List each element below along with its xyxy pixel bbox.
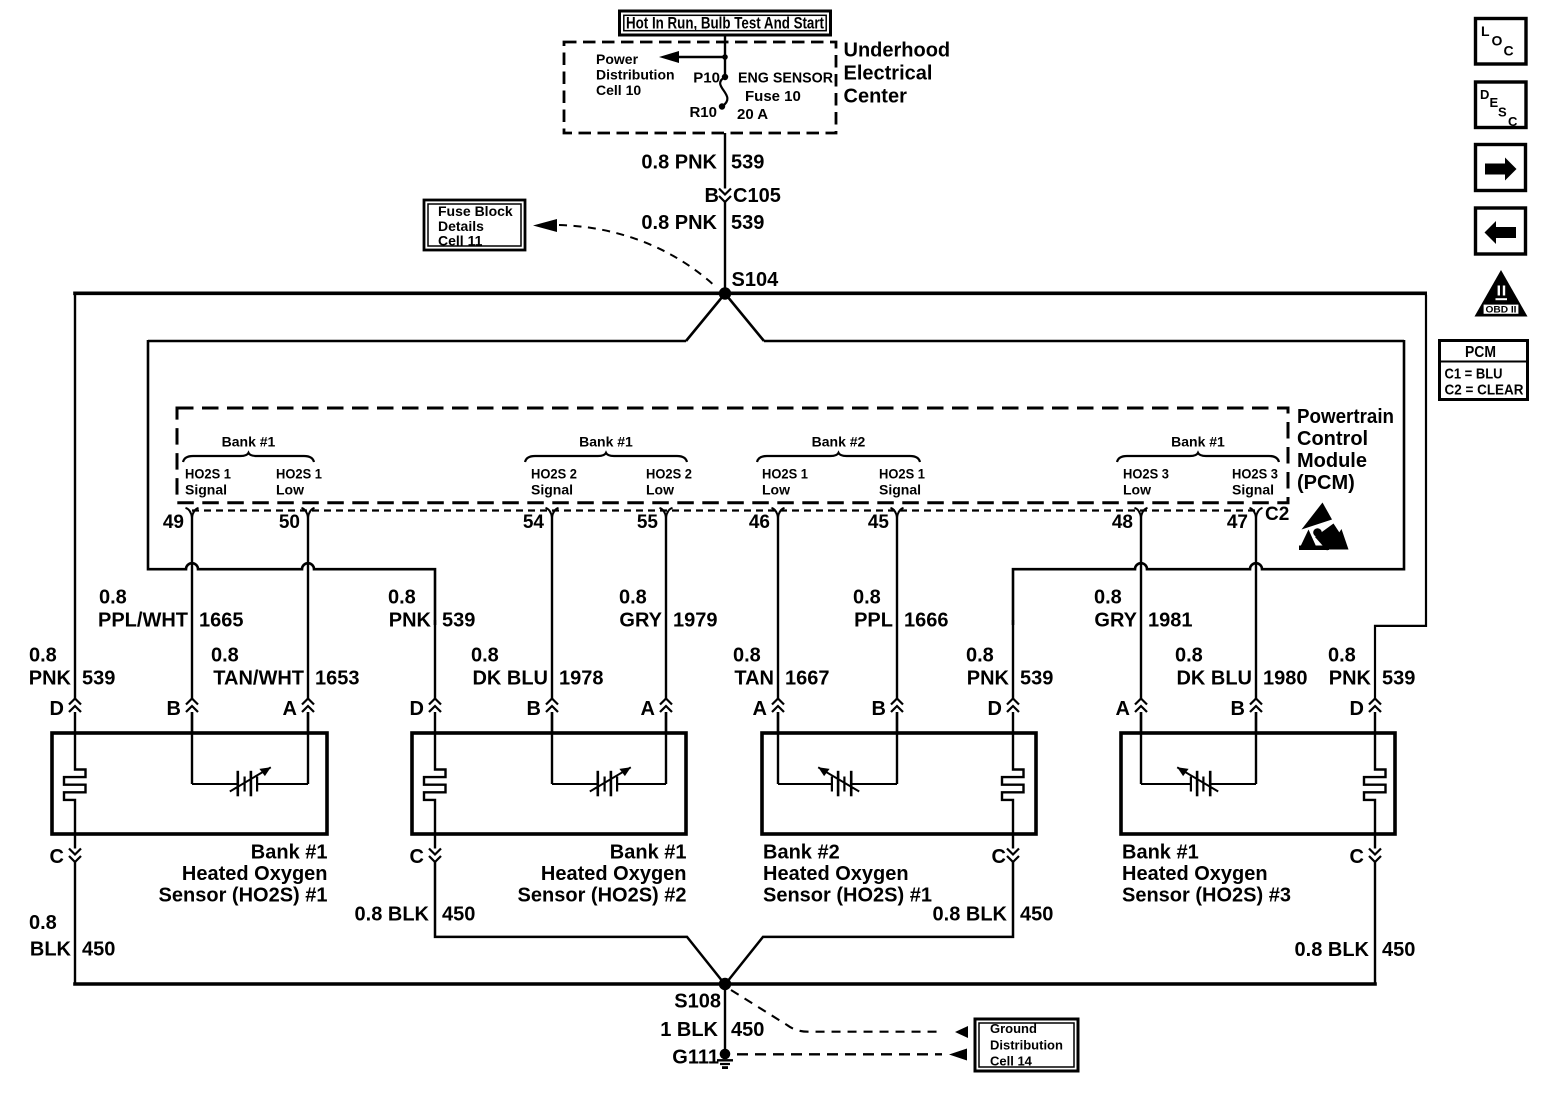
sensor connector pin A: [1116, 698, 1147, 732]
svg-text:TAN/WHT: TAN/WHT: [213, 668, 304, 690]
svg-text:Powertrain: Powertrain: [1297, 406, 1394, 428]
svg-text:1978: 1978: [559, 668, 604, 690]
wire 0.8 BLK 450 HO2S2 to splice S108: [435, 862, 723, 982]
svg-text:HO2S 1: HO2S 1: [762, 466, 808, 482]
wire label 0.8 BLK 450 (HO2S3): [1295, 939, 1416, 961]
Powertrain Control Module (PCM) dashed box: [177, 408, 1288, 503]
svg-text:539: 539: [442, 610, 475, 632]
sensor pin C HO2S1: [50, 836, 81, 868]
wire label 0.8 PNK 539 (Bank2 HO2S1 D): [966, 645, 1053, 690]
svg-text:C: C: [50, 846, 64, 868]
svg-text:P10: P10: [693, 70, 720, 87]
wire label 0.8 PNK 539 (HO2S2 D): [388, 587, 475, 632]
PNK 539 branch diagonals from S104: [686, 294, 764, 342]
svg-text:BLK: BLK: [30, 939, 72, 961]
svg-text:Heated Oxygen: Heated Oxygen: [763, 863, 909, 885]
wire PNK 539 drop to HO2S2 pin D: [434, 620, 436, 699]
HO2S Bank1 #2 sensor box: [412, 733, 686, 834]
svg-text:0.8 BLK: 0.8 BLK: [355, 904, 430, 926]
svg-text:450: 450: [1020, 904, 1053, 926]
PCM pin 47 terminal and wire: [1227, 508, 1263, 699]
sensor connector pin D: [988, 698, 1019, 732]
svg-text:50: 50: [279, 512, 300, 533]
svg-text:Fuse Block: Fuse Block: [438, 203, 513, 219]
splice S104: [719, 269, 779, 300]
PCM pin 48 terminal and wire: [1112, 508, 1148, 699]
HO2S Bank2 #1 sensor box: [762, 733, 1036, 834]
sensor pin C Bank2 HO2S1: [992, 836, 1019, 868]
svg-text:C: C: [410, 846, 424, 868]
reference box: Fuse Block Details Cell 11: [424, 200, 525, 250]
svg-text:Low: Low: [276, 482, 304, 498]
svg-text:45: 45: [868, 512, 890, 533]
sensing element HO2S3 with wires: [1141, 712, 1256, 796]
label Bank #1 Heated Oxygen Sensor (HO2S) #3: [1122, 842, 1291, 907]
svg-text:Bank #1: Bank #1: [1122, 842, 1199, 864]
label Bank #1 Heated Oxygen Sensor (HO2S) #2: [518, 842, 687, 907]
svg-text:1665: 1665: [199, 610, 244, 632]
wire label 0.8 PNK 539 (below C105): [641, 212, 764, 234]
wire label 0.8 PPL/WHT 1665: [98, 587, 244, 632]
wire from feed box into UEC to fuse P10: [724, 35, 726, 75]
svg-text:0.8: 0.8: [619, 587, 647, 609]
svg-text:539: 539: [731, 212, 764, 234]
svg-text:0.8: 0.8: [29, 912, 57, 934]
wire PNK 539 drop to Bank2 HO2S1 pin D: [1012, 620, 1014, 699]
sensor connector pin A: [641, 698, 672, 732]
svg-text:48: 48: [1112, 512, 1133, 533]
PCM pin function label HO2S 1 Signal: [879, 466, 925, 498]
svg-text:1979: 1979: [673, 610, 718, 632]
svg-text:Power: Power: [596, 51, 639, 67]
svg-text:539: 539: [1382, 668, 1415, 690]
svg-text:B: B: [705, 185, 719, 207]
Underhood Electrical Center dashed box: [564, 42, 836, 133]
svg-text:R10: R10: [689, 104, 717, 121]
svg-text:Low: Low: [762, 482, 790, 498]
svg-text:A: A: [1116, 698, 1130, 720]
svg-text:Fuse 10: Fuse 10: [745, 88, 801, 105]
sensor connector pin B: [167, 698, 198, 732]
svg-text:Underhood: Underhood: [844, 40, 951, 62]
wire label 0.8 TAN/WHT 1653: [211, 645, 360, 690]
svg-text:0.8: 0.8: [1175, 645, 1203, 667]
PCM pin function label HO2S 3 Signal: [1232, 466, 1278, 498]
svg-text:0.8: 0.8: [388, 587, 416, 609]
wire label 0.8 PPL 1666: [853, 587, 949, 632]
svg-text:Low: Low: [646, 482, 674, 498]
svg-text:A: A: [283, 698, 297, 720]
svg-text:Distribution: Distribution: [990, 1038, 1063, 1053]
svg-text:PNK: PNK: [29, 668, 72, 690]
svg-text:D: D: [1480, 87, 1489, 102]
PCM pin function label HO2S 2 Low: [646, 466, 692, 498]
label Underhood Electrical Center: [844, 40, 951, 108]
svg-text:1653: 1653: [315, 668, 360, 690]
PNK 539 bus right edge: [1403, 340, 1406, 571]
svg-text:Module: Module: [1297, 450, 1367, 472]
svg-text:TAN: TAN: [734, 668, 774, 690]
svg-text:C2 = CLEAR: C2 = CLEAR: [1445, 382, 1524, 399]
svg-text:55: 55: [637, 512, 659, 533]
PCM pin function label HO2S 1 Low: [762, 466, 808, 498]
svg-text:0.8: 0.8: [471, 645, 499, 667]
svg-text:DK BLU: DK BLU: [472, 668, 548, 690]
label Power Distribution Cell 10: [596, 51, 675, 98]
svg-text:49: 49: [163, 512, 184, 533]
power feed box: Hot In Run, Bulb Test And Start: [620, 11, 831, 35]
svg-text:A: A: [641, 698, 655, 720]
label Powertrain Control Module (PCM): [1297, 406, 1394, 494]
dashed reference arrow G111 to Ground Distribution: [737, 1049, 967, 1061]
wire label 0.8 TAN 1667: [733, 645, 830, 690]
sensing element Bank2 HO2S1 with wires: [778, 712, 897, 796]
svg-text:HO2S 1: HO2S 1: [276, 466, 322, 482]
svg-text:Bank #2: Bank #2: [763, 842, 840, 864]
svg-text:OBD II: OBD II: [1486, 305, 1517, 316]
arrow to Power Distribution Cell 10: [659, 51, 728, 63]
svg-text:Sensor (HO2S) #1: Sensor (HO2S) #1: [159, 885, 328, 907]
wire label 0.8 PNK 539 (left, HO2S1 D): [29, 645, 116, 690]
sidebar icon arrow right: [1476, 145, 1526, 191]
svg-text:450: 450: [731, 1019, 764, 1041]
OBD II symbol: [1475, 270, 1528, 317]
svg-text:1666: 1666: [904, 610, 949, 632]
wire PNK 539 left drop to HO2S1 pin D: [74, 295, 76, 699]
svg-text:Hot In Run, Bulb Test And Star: Hot In Run, Bulb Test And Start: [626, 15, 824, 33]
PCM connector legend box: [1440, 341, 1528, 400]
svg-text:Bank #2: Bank #2: [812, 434, 866, 450]
svg-text:Electrical: Electrical: [844, 63, 933, 85]
sensor connector pin D: [1350, 698, 1381, 732]
svg-text:Distribution: Distribution: [596, 67, 675, 83]
svg-text:PNK: PNK: [1329, 668, 1372, 690]
wire label 0.8 PNK 539 (above C105): [641, 152, 764, 174]
wire label 0.8 BLK 450 (Bank2 HO2S1): [933, 904, 1054, 926]
label Bank #2 Heated Oxygen Sensor (HO2S) #1: [763, 842, 932, 907]
svg-text:C: C: [1508, 114, 1518, 129]
svg-text:0.8: 0.8: [1328, 645, 1356, 667]
svg-text:PPL: PPL: [854, 610, 893, 632]
svg-text:A: A: [753, 698, 767, 720]
svg-text:C: C: [992, 846, 1006, 868]
svg-text:1 BLK: 1 BLK: [660, 1019, 718, 1041]
svg-text:PCM: PCM: [1465, 344, 1496, 361]
sidebar icon LOC: [1476, 19, 1527, 65]
svg-text:D: D: [988, 698, 1002, 720]
wire 0.8 BLK 450 HO2S3 to ground bus: [1374, 862, 1376, 985]
svg-text:Heated Oxygen: Heated Oxygen: [541, 863, 687, 885]
svg-text:Signal: Signal: [1232, 482, 1274, 498]
svg-text:0.8: 0.8: [733, 645, 761, 667]
fuse value label ENG SENSOR Fuse 10 20 A: [737, 70, 833, 124]
svg-text:B: B: [872, 698, 886, 720]
sensor connector pin B: [872, 698, 903, 732]
bottom BLK 450 ground bus (thick): [73, 982, 1377, 986]
svg-text:1981: 1981: [1148, 610, 1193, 632]
svg-text:Low: Low: [1123, 482, 1151, 498]
svg-text:Signal: Signal: [531, 482, 573, 498]
dashed reference arrow S108 to Ground Distribution: [731, 990, 968, 1038]
sensor pin C HO2S2: [410, 836, 441, 868]
wire label 0.8 DK BLU 1980: [1175, 645, 1308, 690]
svg-text:0.8 PNK: 0.8 PNK: [641, 152, 717, 174]
svg-text:Signal: Signal: [879, 482, 921, 498]
PCM brace label Bank #1 over pins 525-687: [525, 434, 687, 463]
PNK 539 bus lower rail left with wire hops, drops to HO2S2 pin D: [148, 563, 435, 625]
svg-text:Cell 14: Cell 14: [990, 1054, 1033, 1069]
wire 0.8 PNK 539 from fuse to C105: [724, 133, 726, 189]
PNK 539 bus lower rail right with wire hops, drops to Bank2 HO2S1 pin D: [1013, 563, 1404, 625]
svg-text:0.8: 0.8: [29, 645, 57, 667]
PCM pin function label HO2S 3 Low: [1123, 466, 1169, 498]
wire PNK 539 right drop to HO2S3 pin D (with jog): [1375, 295, 1426, 699]
label Bank #1 Heated Oxygen Sensor (HO2S) #1: [159, 842, 328, 907]
svg-text:1980: 1980: [1263, 668, 1308, 690]
svg-text:PPL/WHT: PPL/WHT: [98, 610, 188, 632]
sensor connector pin B: [527, 698, 558, 732]
svg-text:L: L: [1481, 23, 1490, 39]
svg-text:539: 539: [1020, 668, 1053, 690]
svg-text:0.8: 0.8: [211, 645, 239, 667]
sensor connector pin D: [50, 698, 81, 732]
svg-text:Sensor (HO2S) #1: Sensor (HO2S) #1: [763, 885, 932, 907]
svg-text:PNK: PNK: [967, 668, 1010, 690]
wire label 0.8 PNK 539 (right, HO2S3 D): [1328, 645, 1415, 690]
ESD sensitive device symbol (hand in triangle): [1299, 503, 1349, 551]
svg-text:HO2S 1: HO2S 1: [879, 466, 925, 482]
PCM pin 45 terminal and wire: [868, 508, 904, 699]
PCM pin 50 terminal and wire: [279, 508, 315, 699]
svg-text:539: 539: [82, 668, 115, 690]
reference box: Ground Distribution Cell 14: [975, 1019, 1078, 1071]
svg-text:C: C: [1350, 846, 1364, 868]
svg-text:D: D: [1350, 698, 1364, 720]
svg-text:47: 47: [1227, 512, 1248, 533]
svg-text:HO2S 3: HO2S 3: [1123, 466, 1169, 482]
svg-text:C105: C105: [733, 185, 781, 207]
svg-text:46: 46: [749, 512, 770, 533]
svg-text:450: 450: [442, 904, 475, 926]
svg-text:C2: C2: [1265, 504, 1289, 525]
fuse F10 ENG SENSOR Fuse 10 20 A: [719, 74, 728, 110]
svg-text:HO2S 1: HO2S 1: [185, 466, 231, 482]
sensing element HO2S1 with wires: [192, 712, 308, 796]
sensor connector pin B: [1231, 698, 1262, 732]
wire label 0.8 GRY 1981: [1094, 587, 1193, 632]
svg-text:D: D: [50, 698, 64, 720]
svg-text:0.8: 0.8: [853, 587, 881, 609]
svg-text:1667: 1667: [785, 668, 830, 690]
svg-text:Center: Center: [844, 86, 908, 108]
wire 1 BLK 450 from S108 to G111: [724, 984, 726, 1049]
heater element HO2S3: [1364, 732, 1386, 837]
sensor pin C HO2S3: [1350, 836, 1381, 868]
svg-text:Bank #1: Bank #1: [610, 842, 687, 864]
HO2S Bank1 #1 sensor box: [52, 733, 327, 834]
sensor connector pin A: [753, 698, 784, 732]
PCM brace label Bank #1 over pins 1117-1279: [1117, 434, 1279, 463]
svg-text:0.8: 0.8: [1094, 587, 1122, 609]
wire label 0.8 BLK 450 (HO2S2): [355, 904, 476, 926]
svg-text:Signal: Signal: [185, 482, 227, 498]
svg-text:Bank #1: Bank #1: [222, 434, 276, 450]
wire 0.8 BLK 450 Bank2 HO2S1 to splice S108: [727, 862, 1013, 982]
wire label 1 BLK 450: [660, 1019, 764, 1041]
svg-text:B: B: [167, 698, 181, 720]
sensor connector pin A: [283, 698, 314, 732]
wire label 0.8 BLK 450 (HO2S1): [29, 912, 115, 961]
PCM pin 49 terminal and wire: [163, 508, 199, 699]
wire label 0.8 GRY 1979: [619, 587, 718, 632]
PNK 539 bus upper rail left: [148, 340, 686, 343]
svg-text:C1 = BLU: C1 = BLU: [1445, 366, 1503, 383]
svg-text:GRY: GRY: [1094, 610, 1137, 632]
svg-text:Ground: Ground: [990, 1021, 1037, 1036]
svg-text:Bank #1: Bank #1: [1171, 434, 1225, 450]
svg-text:0.8: 0.8: [966, 645, 994, 667]
svg-text:D: D: [410, 698, 424, 720]
svg-text:PNK: PNK: [389, 610, 432, 632]
PCM pin 46 terminal and wire: [749, 508, 785, 699]
sidebar icon DESC: [1476, 82, 1527, 129]
splice S108: [674, 978, 731, 1013]
svg-text:S104: S104: [732, 269, 780, 291]
wire 0.8 BLK 450 HO2S1 to ground bus: [74, 862, 76, 985]
svg-text:G111: G111: [672, 1047, 719, 1069]
wire label 0.8 DK BLU 1978: [471, 645, 604, 690]
svg-text:0.8 PNK: 0.8 PNK: [641, 212, 717, 234]
top PNK 539 bus (thick): [73, 291, 1427, 295]
PNK 539 bus upper rail right: [764, 340, 1404, 343]
svg-text:GRY: GRY: [619, 610, 662, 632]
svg-text:Cell 11: Cell 11: [438, 233, 483, 249]
sidebar icon arrow left: [1476, 208, 1526, 254]
HO2S Bank1 #3 sensor box: [1121, 733, 1395, 834]
svg-text:Sensor (HO2S) #3: Sensor (HO2S) #3: [1122, 885, 1291, 907]
svg-text:20 A: 20 A: [737, 106, 768, 123]
svg-text:450: 450: [1382, 939, 1415, 961]
svg-text:HO2S 3: HO2S 3: [1232, 466, 1278, 482]
svg-text:C: C: [1504, 43, 1514, 59]
PCM pin 54 terminal and wire: [523, 508, 559, 699]
svg-text:Bank #1: Bank #1: [579, 434, 633, 450]
PCM brace label Bank #1 over pins 183-314: [183, 434, 314, 463]
svg-text:Sensor (HO2S) #2: Sensor (HO2S) #2: [518, 885, 687, 907]
svg-text:S108: S108: [674, 991, 721, 1013]
svg-text:HO2S 2: HO2S 2: [646, 466, 692, 482]
svg-text:0.8 BLK: 0.8 BLK: [1295, 939, 1370, 961]
PCM pin function label HO2S 1 Low: [276, 466, 322, 498]
svg-text:O: O: [1492, 33, 1503, 49]
PCM pin function label HO2S 1 Signal: [185, 466, 231, 498]
svg-text:ENG SENSOR: ENG SENSOR: [738, 70, 833, 87]
in-line connector C105 pin B: [705, 185, 781, 207]
svg-text:0.8: 0.8: [99, 587, 127, 609]
PCM connector C2 face (dotted line): [192, 509, 1259, 511]
sensing element HO2S2 with wires: [552, 712, 666, 796]
heater element HO2S2: [424, 732, 446, 837]
ground G111: [672, 1047, 733, 1070]
svg-text:S: S: [1498, 105, 1507, 120]
svg-text:Cell 10: Cell 10: [596, 82, 641, 98]
dashed reference arrow from S104 to Fuse Block Details box: [533, 219, 716, 287]
svg-text:Heated Oxygen: Heated Oxygen: [1122, 863, 1268, 885]
svg-text:539: 539: [731, 152, 764, 174]
PCM pin function label HO2S 2 Signal: [531, 466, 577, 498]
svg-text:DK BLU: DK BLU: [1176, 668, 1252, 690]
svg-text:Bank #1: Bank #1: [251, 842, 328, 864]
PNK 539 bus left edge: [147, 340, 150, 571]
svg-text:HO2S 2: HO2S 2: [531, 466, 577, 482]
svg-text:Control: Control: [1297, 428, 1368, 450]
svg-text:B: B: [527, 698, 541, 720]
heater element Bank2 HO2S1: [1002, 732, 1024, 837]
svg-text:B: B: [1231, 698, 1245, 720]
svg-text:54: 54: [523, 512, 545, 533]
svg-text:0.8 BLK: 0.8 BLK: [933, 904, 1008, 926]
heater element HO2S1: [64, 732, 86, 837]
svg-text:(PCM): (PCM): [1297, 472, 1355, 494]
svg-text:450: 450: [82, 939, 115, 961]
PCM brace label Bank #2 over pins 757-920: [757, 434, 920, 463]
wire 0.8 PNK 539 from C105 to S104: [724, 202, 726, 292]
PCM pin 55 terminal and wire: [637, 508, 673, 699]
sensor connector pin D: [410, 698, 441, 732]
svg-text:Heated Oxygen: Heated Oxygen: [182, 863, 328, 885]
